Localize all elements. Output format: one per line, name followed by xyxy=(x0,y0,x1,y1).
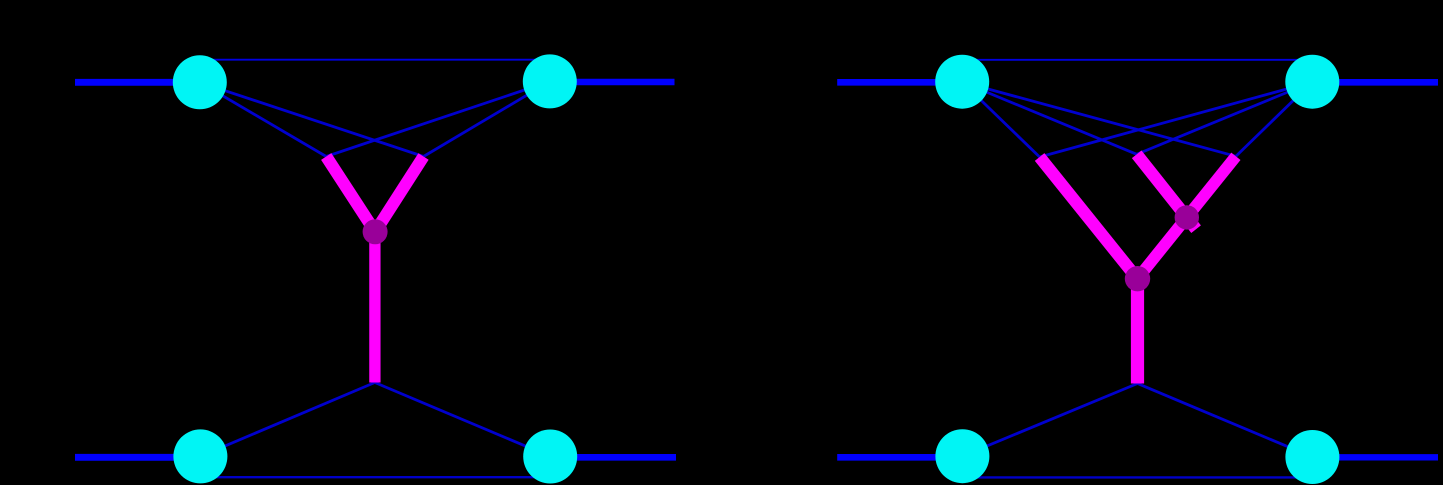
gluon arm: right branch of Y (magenta) xyxy=(373,157,424,236)
node: upper gluon vertex (dark purple) xyxy=(1175,205,1199,229)
wire: top-left blob to right gluon end xyxy=(200,82,424,156)
node: top-left blob (cyan) xyxy=(935,55,989,109)
wire: propagator foot to bottom-left blob xyxy=(200,383,374,457)
gluon arm A: long left branch (magenta) xyxy=(1040,157,1141,282)
wire: bottom-right external leg (thick blue) xyxy=(550,454,676,461)
wire: top-left blob to gluon end C xyxy=(962,82,1236,156)
wire: top-right blob to gluon end C xyxy=(1236,82,1312,156)
node: bottom-left blob (cyan) xyxy=(935,429,989,483)
wire: bottom-left external leg (thick blue) xyxy=(837,454,962,461)
node: bottom-right blob (cyan) xyxy=(523,430,577,484)
gluon propagator: vertical magenta line xyxy=(1131,279,1144,384)
wire: top connecting line between top blobs xyxy=(200,59,550,61)
node: bottom-left blob (cyan) xyxy=(173,429,227,483)
node: top-right blob (cyan) xyxy=(523,54,577,108)
wire: top-left blob to gluon end B xyxy=(962,82,1136,154)
wire: top-left blob to gluon end A xyxy=(962,82,1039,157)
wire: propagator foot to bottom-left blob xyxy=(962,384,1137,457)
wire: top connecting line between top blobs xyxy=(962,59,1312,61)
wire: top-right external leg (thick blue) xyxy=(550,79,675,86)
wire: top-left external leg (thick blue) xyxy=(75,79,200,86)
gluon arm B: middle branch to upper vertex (magenta) xyxy=(1137,154,1196,229)
node: top-left blob (cyan) xyxy=(173,55,227,109)
wire: bottom connecting line between bottom blobs xyxy=(962,476,1312,478)
gluon arm: left branch of Y (magenta) xyxy=(326,157,377,236)
gluon propagator: vertical magenta line xyxy=(369,232,380,383)
node: bottom-right blob (cyan) xyxy=(1285,430,1339,484)
wire: bottom-right external leg (thick blue) xyxy=(1312,454,1438,460)
node: Y junction vertex (dark purple) xyxy=(363,219,388,244)
wire: top-right external leg (thick blue) xyxy=(1312,79,1438,86)
wire: top-right blob to gluon end A xyxy=(1040,82,1313,157)
wire: top-right blob to gluon end B xyxy=(1137,82,1313,154)
node: top-right blob (cyan) xyxy=(1285,55,1339,109)
gluon arm C: right branch through upper vertex down to lower vertex (magenta) xyxy=(1135,156,1236,281)
node: lower gluon vertex (dark purple) xyxy=(1125,266,1150,291)
wire: propagator foot to bottom-right blob xyxy=(375,383,550,457)
wire: top-left blob to left gluon end xyxy=(200,82,326,156)
wire: propagator foot to bottom-right blob xyxy=(1138,384,1313,458)
wire: bottom connecting line between bottom blobs xyxy=(200,476,550,478)
wire: bottom-left external leg (thick blue) xyxy=(75,454,200,461)
wire: top-right blob to right gluon end xyxy=(424,82,550,157)
wire: top-left external leg (thick blue) xyxy=(837,79,962,86)
wire: top-right blob to left gluon end xyxy=(326,82,550,157)
